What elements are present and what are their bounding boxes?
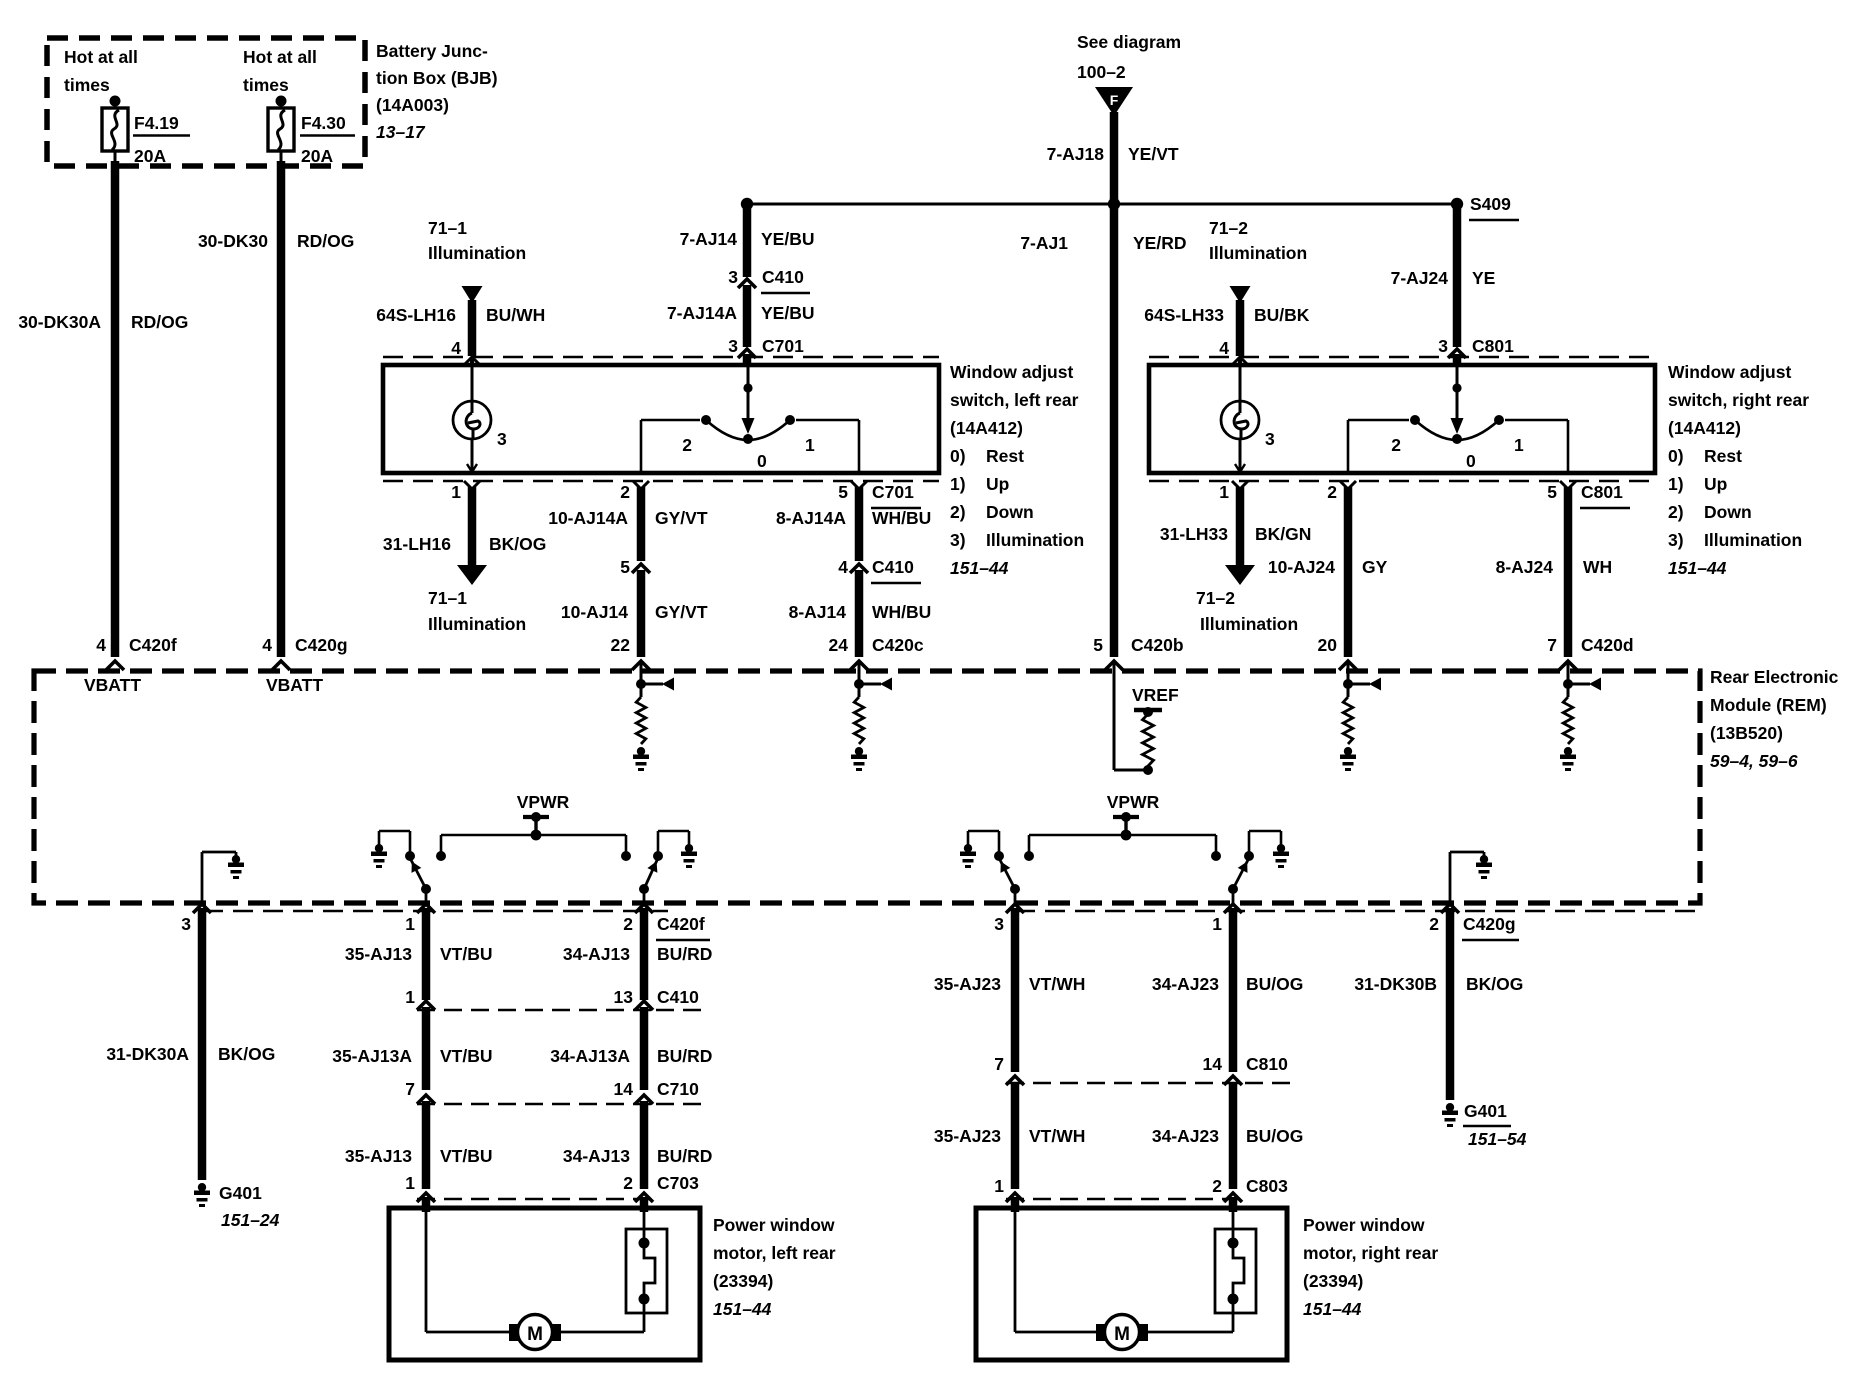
connector C420g pin 4 label — [262, 635, 347, 655]
window adjust switch left rear lamp pin 3 label — [497, 429, 507, 449]
connector C701 pin 3 (chevron) — [728, 336, 804, 358]
svg-text:Illumination: Illumination — [1704, 530, 1802, 550]
svg-text:YE/VT: YE/VT — [1128, 144, 1179, 164]
connector C701 pin 4 (chevron) — [451, 338, 480, 365]
svg-text:3: 3 — [1438, 336, 1448, 356]
wire 7-AJ1 YE/RD to REM pin 5 — [1105, 204, 1123, 670]
svg-text:Window adjust: Window adjust — [950, 362, 1073, 382]
svg-text:34-AJ13: 34-AJ13 — [563, 1146, 630, 1166]
power window motor right rear enclosure — [976, 1208, 1287, 1360]
wire 10-AJ14A GY/VT — [637, 487, 646, 561]
connector C801 pin 3 (chevron) — [1438, 336, 1514, 358]
svg-text:3): 3) — [1668, 530, 1684, 550]
svg-text:Rest: Rest — [1704, 446, 1742, 466]
svg-text:151–44: 151–44 — [1303, 1299, 1362, 1319]
connector C801 pin 4 (chevron) — [1219, 338, 1248, 365]
svg-text:F: F — [1110, 92, 1119, 108]
svg-text:1: 1 — [405, 1173, 415, 1193]
svg-text:7-AJ18: 7-AJ18 — [1047, 144, 1105, 164]
svg-text:14: 14 — [614, 1079, 634, 1099]
label Rear Electronic Module (REM) (13B520) 59-4 59-6 — [1710, 667, 1839, 771]
connector C410 pin 3 (chevron) — [728, 267, 810, 293]
svg-text:VBATT: VBATT — [266, 675, 323, 695]
window adjust switch left rear connector dashed line below — [383, 480, 939, 483]
svg-text:C803: C803 — [1246, 1176, 1288, 1196]
svg-text:64S-LH16: 64S-LH16 — [376, 305, 456, 325]
svg-text:4: 4 — [1219, 338, 1229, 358]
window adjust switch left rear lamp wire to pin 1 — [467, 365, 477, 473]
REM input sense resistor and ground at pin 20 — [1340, 663, 1381, 771]
label 64S-LH33 BU/BK — [1144, 305, 1310, 325]
svg-text:1): 1) — [1668, 474, 1684, 494]
svg-text:59–4, 59–6: 59–4, 59–6 — [1710, 751, 1798, 771]
REM output driver switch (left module, pin 1) — [371, 831, 431, 903]
svg-text:151–54: 151–54 — [1468, 1129, 1527, 1149]
svg-text:BU/OG: BU/OG — [1246, 1126, 1303, 1146]
svg-text:2: 2 — [1212, 1176, 1222, 1196]
wire 30-DK30 RD/OG from fuse F4.30 to REM pin 4 C420g — [272, 151, 290, 670]
svg-text:1: 1 — [451, 482, 461, 502]
circuit breaker inside motor right rear — [1215, 1208, 1256, 1332]
wire 31-DK30A BK/OG to G401 — [198, 908, 207, 1180]
wire 7-AJ14A YE/BU — [743, 285, 752, 347]
svg-text:VT/WH: VT/WH — [1029, 974, 1085, 994]
svg-text:switch, right rear: switch, right rear — [1668, 390, 1809, 410]
svg-text:13–17: 13–17 — [376, 122, 426, 142]
window adjust switch left rear enclosure — [383, 365, 939, 473]
svg-text:7: 7 — [1547, 635, 1557, 655]
svg-text:4: 4 — [838, 557, 848, 577]
svg-text:YE/BU: YE/BU — [761, 303, 814, 323]
circuit breaker inside motor left rear — [626, 1208, 667, 1332]
REM output driver switch (right module, pin 1) — [1228, 831, 1289, 903]
svg-text:10-AJ14: 10-AJ14 — [561, 602, 628, 622]
label Hot at all times (right) — [243, 47, 317, 95]
svg-text:8-AJ14A: 8-AJ14A — [776, 508, 846, 528]
svg-text:WH/BU: WH/BU — [872, 508, 931, 528]
wire into left switch box — [743, 354, 752, 365]
REM input sense resistor and ground at pin 24 — [851, 663, 892, 771]
svg-text:BU/RD: BU/RD — [657, 944, 712, 964]
window adjust switch left rear illumination lamp — [453, 401, 491, 439]
svg-text:0: 0 — [1466, 451, 1476, 471]
window adjust switch right rear position labels 2 0 1 — [1391, 435, 1524, 471]
svg-text:C420b: C420b — [1131, 635, 1184, 655]
connector C801 pin 2 (chevron down) — [1327, 481, 1356, 502]
svg-text:F4.30: F4.30 — [301, 113, 346, 133]
REM VPWR feed (right) — [1024, 792, 1221, 861]
label Window adjust switch right rear (14A412) legend — [1668, 362, 1809, 578]
connector C810 row — [994, 1054, 1299, 1085]
svg-text:G401: G401 — [1464, 1101, 1507, 1121]
motor M symbol left rear — [426, 1208, 644, 1350]
connector C420c pins 22 24 labels — [611, 635, 924, 655]
window adjust switch right rear lamp wire to pin 1 — [1235, 365, 1245, 473]
svg-text:M: M — [527, 1324, 543, 1345]
svg-text:5: 5 — [1093, 635, 1103, 655]
svg-text:Power window: Power window — [713, 1215, 835, 1235]
wire into right motor box pin 2 — [1229, 1197, 1238, 1212]
svg-text:20A: 20A — [134, 146, 166, 166]
label F4.19 / 20A — [133, 113, 190, 166]
label 31-LH16 BK/OG — [383, 534, 546, 554]
svg-text:times: times — [243, 75, 289, 95]
wire into right switch box — [1453, 354, 1462, 365]
REM VPWR feed (left) — [436, 792, 631, 861]
ground G401 (left) — [194, 1183, 280, 1230]
wire into left motor box pin 2 — [640, 1197, 649, 1212]
svg-text:31-LH16: 31-LH16 — [383, 534, 451, 554]
svg-text:2: 2 — [620, 482, 630, 502]
svg-text:(23394): (23394) — [713, 1271, 773, 1291]
wire 34-AJ23 BU/OG (lower) — [1229, 1082, 1238, 1189]
connector C410 pin 5 (chevron) — [620, 557, 650, 577]
label 35-AJ23 VT/WH 34-AJ23 BU/OG (upper) — [934, 974, 1304, 994]
window adjust switch right rear rocker switch contacts — [1348, 365, 1568, 473]
svg-text:(23394): (23394) — [1303, 1271, 1363, 1291]
window adjust switch right rear connector dashed line below — [1149, 480, 1655, 483]
svg-text:4: 4 — [451, 338, 461, 358]
svg-text:times: times — [64, 75, 110, 95]
REM input sense resistor and ground at pin 7 — [1560, 663, 1601, 771]
connector C701 pin 2 (chevron down) — [620, 481, 649, 502]
svg-text:34-AJ13: 34-AJ13 — [563, 944, 630, 964]
svg-text:4: 4 — [96, 635, 106, 655]
junction dot left bus — [741, 198, 753, 210]
svg-text:0: 0 — [757, 451, 767, 471]
svg-text:7-AJ14: 7-AJ14 — [680, 229, 738, 249]
wire bus from switch drop to S409 — [747, 203, 1457, 206]
svg-text:2: 2 — [1391, 435, 1401, 455]
svg-text:BU/OG: BU/OG — [1246, 974, 1303, 994]
label 71-2 Illumination (bottom) — [1196, 588, 1298, 634]
svg-text:20A: 20A — [301, 146, 333, 166]
svg-text:Window adjust: Window adjust — [1668, 362, 1791, 382]
REM internal ground at pin 3 (left) — [202, 852, 244, 903]
label 31-DK30A BK/OG — [106, 1044, 275, 1064]
svg-text:Rear Electronic: Rear Electronic — [1710, 667, 1839, 687]
svg-text:8-AJ14: 8-AJ14 — [789, 602, 847, 622]
svg-text:35-AJ13A: 35-AJ13A — [332, 1046, 412, 1066]
wire 34-AJ23 BU/OG (upper) — [1229, 908, 1238, 1072]
svg-text:64S-LH33: 64S-LH33 — [1144, 305, 1224, 325]
svg-text:C410: C410 — [872, 557, 914, 577]
wire 34-AJ13 BU/RD (lower) — [640, 1101, 649, 1189]
svg-text:2): 2) — [1668, 502, 1684, 522]
fuse F4.19 20A — [102, 96, 128, 152]
svg-text:BU/RD: BU/RD — [657, 1046, 712, 1066]
svg-text:G401: G401 — [219, 1183, 262, 1203]
svg-text:71–1: 71–1 — [428, 218, 467, 238]
label 71-1 Illumination (top) — [428, 218, 526, 263]
label Window adjust switch left rear (14A412) legend — [950, 362, 1084, 578]
svg-text:31-DK30A: 31-DK30A — [106, 1044, 189, 1064]
incoming illumination arrow (left) — [462, 286, 483, 356]
svg-text:C701: C701 — [872, 482, 914, 502]
svg-text:0): 0) — [1668, 446, 1684, 466]
svg-text:WH/BU: WH/BU — [872, 602, 931, 622]
svg-text:VT/WH: VT/WH — [1029, 1126, 1085, 1146]
svg-text:13: 13 — [614, 987, 634, 1007]
wire 34-AJ13 BU/RD (upper) — [640, 908, 649, 1000]
connector C420g pin 2 (chevron) — [1429, 904, 1519, 940]
svg-text:Battery Junc-: Battery Junc- — [376, 41, 488, 61]
svg-text:71–2: 71–2 — [1196, 588, 1235, 608]
svg-text:22: 22 — [611, 635, 631, 655]
svg-text:(14A412): (14A412) — [1668, 418, 1741, 438]
connector C420f pin 4 label — [96, 635, 177, 655]
svg-text:C420g: C420g — [295, 635, 348, 655]
svg-text:10-AJ14A: 10-AJ14A — [548, 508, 628, 528]
svg-text:1: 1 — [994, 1176, 1004, 1196]
REM input sense resistor and ground at pin 22 — [633, 663, 674, 771]
svg-text:Illumination: Illumination — [986, 530, 1084, 550]
label 10-AJ14A GY/VT — [548, 508, 708, 528]
svg-text:(13B520): (13B520) — [1710, 723, 1783, 743]
label 7-AJ1 YE/RD — [1020, 233, 1186, 253]
svg-text:30-DK30A: 30-DK30A — [18, 312, 101, 332]
label See diagram 100-2 — [1077, 32, 1181, 82]
motor M symbol right rear — [1015, 1208, 1233, 1350]
label 30-DK30 RD/OG — [198, 231, 354, 251]
svg-text:VT/BU: VT/BU — [440, 944, 493, 964]
incoming illumination arrow (right) — [1230, 286, 1251, 356]
label 7-AJ18 YE/VT — [1047, 144, 1179, 164]
connector row C420g dashed line (REM bottom right) — [1015, 910, 1697, 913]
svg-text:3: 3 — [994, 914, 1004, 934]
svg-text:2: 2 — [682, 435, 692, 455]
svg-text:BU/BK: BU/BK — [1254, 305, 1310, 325]
connector C801 pin 1 (chevron down) — [1219, 481, 1248, 502]
REM VREF pull-up at pin 5 — [1114, 663, 1179, 775]
svg-text:(14A003): (14A003) — [376, 95, 449, 115]
svg-text:C703: C703 — [657, 1173, 699, 1193]
svg-text:1: 1 — [1219, 482, 1229, 502]
svg-text:S409: S409 — [1470, 194, 1511, 214]
svg-text:5: 5 — [838, 482, 848, 502]
svg-text:71–2: 71–2 — [1209, 218, 1248, 238]
svg-text:YE/BU: YE/BU — [761, 229, 814, 249]
connector C710 row — [405, 1079, 710, 1104]
wire 35-AJ13A VT/BU — [422, 1007, 431, 1090]
connector C420d pins 20 7 labels — [1318, 635, 1634, 655]
svg-text:151–44: 151–44 — [950, 558, 1009, 578]
svg-text:3: 3 — [497, 429, 507, 449]
svg-text:motor, left rear: motor, left rear — [713, 1243, 836, 1263]
svg-text:Rest: Rest — [986, 446, 1024, 466]
svg-text:VT/BU: VT/BU — [440, 1046, 493, 1066]
svg-text:35-AJ23: 35-AJ23 — [934, 1126, 1001, 1146]
label 35-AJ13A VT/BU 34-AJ13A BU/RD — [332, 1046, 712, 1066]
svg-text:M: M — [1114, 1324, 1130, 1345]
wire 8-AJ24 WH — [1559, 487, 1577, 670]
svg-text:3: 3 — [181, 914, 191, 934]
svg-text:BK/OG: BK/OG — [1466, 974, 1523, 994]
connector C420b pin 5 label — [1093, 635, 1183, 655]
window adjust switch left rear connector dashed line above — [383, 356, 939, 359]
svg-text:switch, left rear: switch, left rear — [950, 390, 1079, 410]
svg-text:C410: C410 — [762, 267, 804, 287]
svg-text:3: 3 — [728, 267, 738, 287]
svg-text:3): 3) — [950, 530, 966, 550]
connector C420f pin 3 (chevron) — [181, 904, 211, 934]
svg-text:24: 24 — [829, 635, 849, 655]
svg-text:VREF: VREF — [1132, 685, 1179, 705]
svg-text:Down: Down — [986, 502, 1034, 522]
svg-text:7: 7 — [405, 1079, 415, 1099]
connector C420g pin 1 (chevron) — [1212, 904, 1242, 934]
wire 31-LH33 BK/GN — [1225, 487, 1255, 585]
svg-text:(14A412): (14A412) — [950, 418, 1023, 438]
label 8-AJ14 WH/BU — [789, 602, 932, 622]
window adjust switch left rear rocker switch contacts — [641, 365, 859, 473]
svg-text:C420d: C420d — [1581, 635, 1634, 655]
svg-text:C410: C410 — [657, 987, 699, 1007]
svg-text:14: 14 — [1203, 1054, 1223, 1074]
svg-text:151–44: 151–44 — [1668, 558, 1727, 578]
svg-text:35-AJ13: 35-AJ13 — [345, 1146, 412, 1166]
wire 34-AJ13A BU/RD — [640, 1007, 649, 1090]
svg-text:1: 1 — [1514, 435, 1524, 455]
svg-text:C701: C701 — [762, 336, 804, 356]
svg-text:GY/VT: GY/VT — [655, 602, 708, 622]
label 30-DK30A RD/OG — [18, 312, 188, 332]
svg-text:34-AJ23: 34-AJ23 — [1152, 1126, 1219, 1146]
connector C701 pin 5 (chevron down) — [838, 481, 921, 508]
label 7-AJ14A YE/BU — [667, 303, 815, 323]
svg-text:BK/OG: BK/OG — [489, 534, 546, 554]
wire 7-AJ24 YE — [1453, 204, 1462, 347]
wire 8-AJ14A WH/BU — [855, 487, 864, 561]
svg-text:2: 2 — [1327, 482, 1337, 502]
label 35-AJ23 VT/WH 34-AJ23 BU/OG (lower) — [934, 1126, 1304, 1146]
wire 7-AJ14 YE/BU — [743, 204, 752, 277]
node VBATT (left) — [84, 675, 141, 695]
rear electronic module (REM) dashed enclosure — [34, 671, 1700, 903]
svg-text:Illumination: Illumination — [1209, 243, 1307, 263]
svg-text:GY/VT: GY/VT — [655, 508, 708, 528]
svg-text:Illumination: Illumination — [428, 614, 526, 634]
REM internal ground at pin 2 (right) — [1450, 852, 1492, 903]
svg-text:31-DK30B: 31-DK30B — [1354, 974, 1437, 994]
wire into left motor box pin 1 — [422, 1197, 431, 1212]
wire 10-AJ24 GY — [1339, 487, 1357, 670]
svg-text:5: 5 — [620, 557, 630, 577]
svg-text:34-AJ13A: 34-AJ13A — [550, 1046, 630, 1066]
label 35-AJ13 VT/BU 34-AJ13 BU/RD (lower) — [345, 1146, 713, 1166]
label 31-LH33 BK/GN — [1160, 524, 1311, 544]
battery junction box (BJB) dashed enclosure — [47, 38, 365, 166]
wire 35-AJ13 VT/BU (lower) — [422, 1101, 431, 1189]
connector C703 row — [405, 1173, 699, 1202]
window adjust switch right rear lamp pin 3 label — [1265, 429, 1275, 449]
label Hot at all times (left) — [64, 47, 138, 95]
svg-text:3: 3 — [728, 336, 738, 356]
ground G401 (right) — [1442, 1101, 1527, 1149]
window adjust switch left rear position labels 2 0 1 — [682, 435, 815, 471]
svg-text:Illumination: Illumination — [428, 243, 526, 263]
svg-text:C420c: C420c — [872, 635, 924, 655]
svg-text:2): 2) — [950, 502, 966, 522]
svg-text:C801: C801 — [1472, 336, 1514, 356]
wire 7-AJ18 YE/VT — [1110, 112, 1119, 204]
svg-text:3: 3 — [1265, 429, 1275, 449]
label Power window motor right rear — [1303, 1215, 1438, 1319]
svg-text:F4.19: F4.19 — [134, 113, 179, 133]
svg-text:2: 2 — [623, 1173, 633, 1193]
svg-text:5: 5 — [1547, 482, 1557, 502]
svg-text:35-AJ13: 35-AJ13 — [345, 944, 412, 964]
node VBATT (right) — [266, 675, 323, 695]
svg-text:BU/WH: BU/WH — [486, 305, 545, 325]
svg-text:Illumination: Illumination — [1200, 614, 1298, 634]
window adjust switch right rear enclosure — [1149, 365, 1655, 473]
svg-text:BU/RD: BU/RD — [657, 1146, 712, 1166]
label 10-AJ24 GY — [1268, 557, 1388, 577]
connector C803 row — [994, 1176, 1288, 1202]
wire 30-DK30A RD/OG from fuse F4.19 to REM pin 4 C420f — [106, 151, 124, 670]
connector C420f pin 1 (chevron) — [405, 904, 435, 934]
svg-text:30-DK30: 30-DK30 — [198, 231, 268, 251]
svg-text:VT/BU: VT/BU — [440, 1146, 493, 1166]
svg-text:C420f: C420f — [657, 914, 705, 934]
label F4.30 / 20A — [300, 113, 355, 166]
label Power window motor left rear — [713, 1215, 836, 1319]
wire 8-AJ14 WH/BU — [850, 570, 868, 670]
label 7-AJ24 YE — [1391, 268, 1496, 288]
svg-text:Hot at all: Hot at all — [64, 47, 138, 67]
svg-text:WH: WH — [1583, 557, 1612, 577]
wire 10-AJ14 GY/VT — [632, 570, 650, 670]
wire into right motor box pin 1 — [1011, 1197, 1020, 1212]
svg-text:Module (REM): Module (REM) — [1710, 695, 1827, 715]
svg-text:100–2: 100–2 — [1077, 62, 1126, 82]
window adjust switch right rear connector dashed line above — [1149, 356, 1655, 359]
label Battery Junction Box (BJB) (14A003) 13-17 — [376, 41, 498, 142]
svg-text:1: 1 — [805, 435, 815, 455]
svg-text:Down: Down — [1704, 502, 1752, 522]
svg-text:BK/GN: BK/GN — [1255, 524, 1311, 544]
svg-text:C810: C810 — [1246, 1054, 1288, 1074]
label 31-DK30B BK/OG — [1354, 974, 1523, 994]
svg-text:2: 2 — [1429, 914, 1439, 934]
svg-text:Up: Up — [1704, 474, 1727, 494]
svg-text:7: 7 — [994, 1054, 1004, 1074]
connector row C420f dashed line (REM bottom left) — [203, 910, 668, 913]
label 64S-LH16 BU/WH — [376, 305, 545, 325]
svg-text:RD/OG: RD/OG — [297, 231, 354, 251]
svg-text:151–24: 151–24 — [221, 1210, 280, 1230]
svg-text:31-LH33: 31-LH33 — [1160, 524, 1228, 544]
svg-text:tion Box (BJB): tion Box (BJB) — [376, 68, 498, 88]
svg-text:Power window: Power window — [1303, 1215, 1425, 1235]
svg-text:8-AJ24: 8-AJ24 — [1496, 557, 1554, 577]
label 8-AJ24 WH — [1496, 557, 1613, 577]
svg-text:BK/OG: BK/OG — [218, 1044, 275, 1064]
svg-text:71–1: 71–1 — [428, 588, 467, 608]
svg-text:YE: YE — [1472, 268, 1495, 288]
svg-text:35-AJ23: 35-AJ23 — [934, 974, 1001, 994]
connector C801 pin 5 (chevron down) — [1547, 481, 1630, 508]
svg-text:Hot at all: Hot at all — [243, 47, 317, 67]
wire 31-LH16 BK/OG — [457, 487, 487, 585]
connector C410 pin 4 (chevron) — [838, 557, 921, 583]
REM output driver switch (left module, pin 2) — [639, 831, 697, 903]
REM output driver switch (right module, pin 3) — [960, 831, 1020, 903]
label 71-1 Illumination (bottom) — [428, 588, 526, 634]
svg-text:2: 2 — [623, 914, 633, 934]
svg-text:10-AJ24: 10-AJ24 — [1268, 557, 1335, 577]
